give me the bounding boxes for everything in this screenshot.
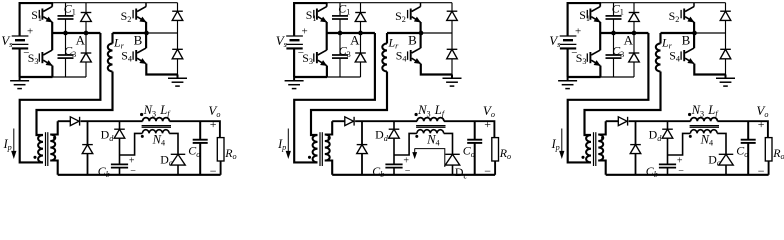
- node B: [113, 31, 178, 48]
- wire: [629, 120, 691, 122]
- svg-text:−: −: [758, 164, 765, 178]
- wire: [601, 2, 725, 4]
- transistor S23: [302, 33, 327, 66]
- wire: [599, 66, 601, 77]
- voltage source Vs2: [276, 3, 328, 77]
- svg-text:+: +: [758, 117, 765, 131]
- wire: [421, 64, 452, 75]
- node B: [661, 31, 726, 48]
- output capacitor Co1: [188, 121, 207, 175]
- filter inductor N3/Lf2: [415, 103, 446, 121]
- transformer T2 secondary: [325, 135, 331, 161]
- wire: [606, 174, 769, 176]
- diode Dd2: [375, 121, 399, 143]
- transistor S11: [31, 3, 52, 24]
- freewheeling diode D3f: [630, 121, 641, 175]
- winding N4 right lead: [717, 133, 726, 154]
- diode (S24 antiparallel): [447, 33, 458, 75]
- transistor S31: [579, 3, 600, 24]
- diode (S23 antiparallel): [355, 33, 366, 77]
- wire: [717, 121, 768, 137]
- diode Dc3: [708, 152, 733, 174]
- load resistor Ro3: [765, 138, 784, 175]
- current Ip1 arrow: [3, 129, 16, 158]
- svg-text:+: +: [575, 25, 581, 37]
- wire: [146, 64, 177, 75]
- coupled core: [142, 126, 171, 128]
- wire: [393, 138, 395, 165]
- transformer T2 primary: [308, 135, 318, 162]
- svg-text:−: −: [210, 164, 217, 178]
- current Ip2 arrow: [277, 129, 290, 158]
- winding N4 left lead: [120, 133, 143, 155]
- diode (S13 antiparallel): [81, 33, 92, 77]
- current Ip3 arrow: [551, 129, 564, 158]
- wire: [598, 161, 605, 175]
- output capacitor Co2: [463, 121, 482, 175]
- freewheeling diode D1f: [82, 121, 93, 175]
- rectifier diode D3r: [618, 117, 627, 126]
- wire: [58, 174, 221, 176]
- transistor S12: [121, 3, 147, 25]
- wire: [20, 76, 53, 78]
- wire: [294, 33, 375, 162]
- wire: [81, 120, 143, 122]
- rectifier diode D1r: [70, 117, 79, 126]
- inductor Lr1: [108, 33, 125, 72]
- winding N4: [689, 130, 717, 148]
- rectifier diode D2r: [345, 117, 354, 126]
- ground: [285, 77, 304, 89]
- wire: [37, 72, 113, 136]
- ground: [716, 75, 735, 87]
- diode (S21 antiparallel): [355, 3, 366, 33]
- transformer T3 primary: [581, 135, 591, 162]
- load resistor Ro2: [492, 138, 511, 175]
- capacitor Cb3: [646, 156, 685, 180]
- svg-text:+: +: [210, 117, 217, 131]
- node B: [387, 31, 452, 48]
- wire: [20, 33, 101, 162]
- coupled core: [416, 126, 445, 128]
- wire: [53, 2, 177, 4]
- node A: [327, 31, 375, 48]
- winding N4 left lead: [668, 133, 691, 155]
- current arrow loop: [413, 149, 445, 167]
- wire: [585, 72, 661, 136]
- svg-text:A: A: [76, 33, 86, 48]
- transformer T1 secondary: [50, 135, 56, 161]
- svg-text:+: +: [27, 25, 33, 37]
- svg-text:+: +: [129, 156, 135, 167]
- wire: [694, 64, 725, 75]
- wire: [326, 66, 328, 77]
- transistor S22: [395, 3, 421, 25]
- diode (S22 antiparallel): [447, 3, 458, 33]
- transformer T3 secondary: [598, 135, 604, 161]
- wire: [50, 161, 57, 175]
- capacitor Cb2: [372, 156, 411, 180]
- wire: [568, 33, 649, 162]
- transistor S24: [396, 33, 421, 64]
- node A: [52, 31, 100, 48]
- wire: [327, 76, 361, 78]
- wire: [599, 22, 601, 33]
- wire: [53, 76, 87, 78]
- transformer T1 primary: [33, 135, 43, 162]
- transistor S33: [576, 33, 601, 66]
- diode (S31 antiparallel): [629, 3, 640, 33]
- wire: [601, 76, 635, 78]
- ground: [168, 75, 187, 87]
- transformer T1 core: [46, 132, 48, 166]
- svg-text:−: −: [484, 164, 491, 178]
- output voltage Vo3: [756, 103, 768, 178]
- diode Dd1: [101, 121, 125, 143]
- winding N4 right lead: [169, 133, 178, 154]
- diode Dc1: [160, 152, 185, 174]
- wire: [355, 120, 417, 122]
- wire: [332, 174, 495, 176]
- diode (S34 antiparallel): [720, 33, 731, 75]
- freewheeling diode D2f: [357, 121, 368, 175]
- output voltage Vo1: [208, 103, 220, 178]
- svg-text:B: B: [682, 33, 691, 48]
- capacitor C21: [332, 2, 350, 34]
- load resistor Ro1: [217, 138, 236, 175]
- winding N4 right lead: [444, 133, 453, 154]
- wire: [444, 121, 495, 137]
- inductor Lr3: [656, 33, 673, 72]
- output voltage Vo2: [483, 103, 495, 178]
- transistor S21: [306, 3, 327, 24]
- capacitor C11: [58, 2, 76, 34]
- node A: [600, 31, 648, 48]
- svg-text:+: +: [677, 156, 683, 167]
- wire: [326, 22, 328, 33]
- svg-text:+: +: [484, 117, 491, 131]
- diode Dc2: [445, 154, 467, 180]
- transformer T3 core: [594, 132, 596, 166]
- output capacitor Co3: [736, 121, 755, 175]
- transformer T2 core: [320, 132, 322, 166]
- diode (S32 antiparallel): [720, 3, 731, 33]
- svg-text:+: +: [403, 156, 409, 167]
- wire: [50, 121, 57, 134]
- svg-text:A: A: [624, 33, 634, 48]
- wire: [311, 72, 387, 136]
- wire: [145, 22, 147, 33]
- svg-text:+: +: [302, 25, 308, 37]
- capacitor C13: [58, 33, 77, 77]
- transistor S32: [669, 3, 695, 25]
- ground: [558, 77, 577, 89]
- wire: [119, 138, 121, 165]
- winding N4: [415, 130, 443, 148]
- wire: [51, 66, 53, 77]
- wire: [169, 121, 220, 137]
- wire: [332, 120, 345, 122]
- filter inductor N3/Lf1: [140, 103, 171, 121]
- svg-text:B: B: [408, 33, 417, 48]
- diode (S11 antiparallel): [81, 3, 92, 33]
- transistor S34: [669, 33, 694, 64]
- wire: [325, 161, 332, 175]
- inductor Lr2: [382, 33, 399, 72]
- wire: [51, 22, 53, 33]
- ground: [443, 75, 462, 87]
- capacitor C31: [606, 2, 624, 34]
- diode (S14 antiparallel): [172, 33, 183, 75]
- winding N4 left lead: [394, 133, 417, 155]
- diode (S33 antiparallel): [629, 33, 640, 77]
- wire: [606, 120, 619, 122]
- svg-text:A: A: [350, 33, 360, 48]
- wire: [58, 120, 71, 122]
- wire: [568, 76, 601, 78]
- coupled core: [690, 126, 719, 128]
- transistor S13: [28, 33, 53, 66]
- transistor S14: [121, 33, 146, 64]
- wire: [294, 76, 327, 78]
- wire: [667, 138, 669, 165]
- voltage source Vs3: [549, 3, 601, 77]
- svg-text:B: B: [134, 33, 143, 48]
- wire: [420, 22, 422, 33]
- capacitor C23: [332, 33, 351, 77]
- diode Dd3: [649, 121, 673, 143]
- filter inductor N3/Lf3: [688, 103, 719, 121]
- capacitor Cb1: [98, 156, 137, 180]
- wire: [693, 22, 695, 33]
- diode (S12 antiparallel): [172, 3, 183, 33]
- ground: [10, 77, 29, 89]
- wire: [328, 2, 452, 4]
- wire: [598, 121, 605, 134]
- voltage source Vs1: [1, 3, 53, 77]
- capacitor C33: [606, 33, 625, 77]
- winding N4: [141, 130, 169, 148]
- wire: [325, 121, 332, 134]
